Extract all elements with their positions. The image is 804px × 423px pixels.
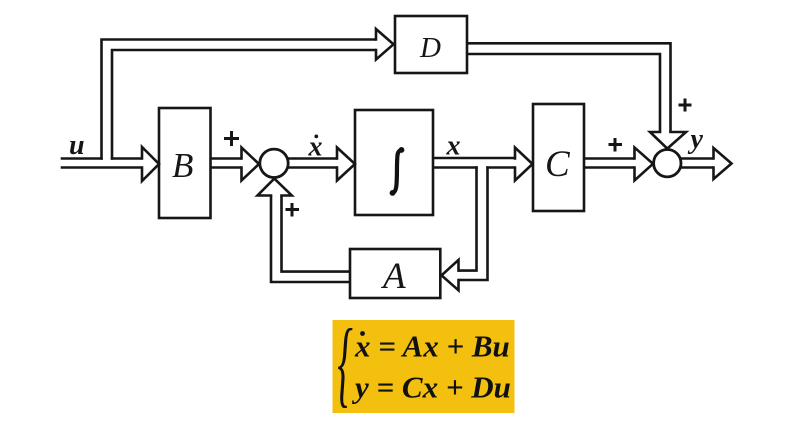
svg-text:u: u bbox=[69, 130, 85, 161]
svg-text:x: x bbox=[446, 131, 461, 162]
svg-text:A: A bbox=[380, 256, 406, 297]
svg-text:y = Cx + Du: y = Cx + Du bbox=[351, 370, 511, 405]
svg-text:B: B bbox=[172, 146, 193, 185]
svg-text:D: D bbox=[419, 32, 441, 64]
svg-text:x = Ax + Bu: x = Ax + Bu bbox=[354, 329, 510, 364]
svg-text:C: C bbox=[545, 144, 571, 185]
svg-text:{: { bbox=[337, 310, 352, 416]
svg-text:y: y bbox=[688, 124, 704, 155]
